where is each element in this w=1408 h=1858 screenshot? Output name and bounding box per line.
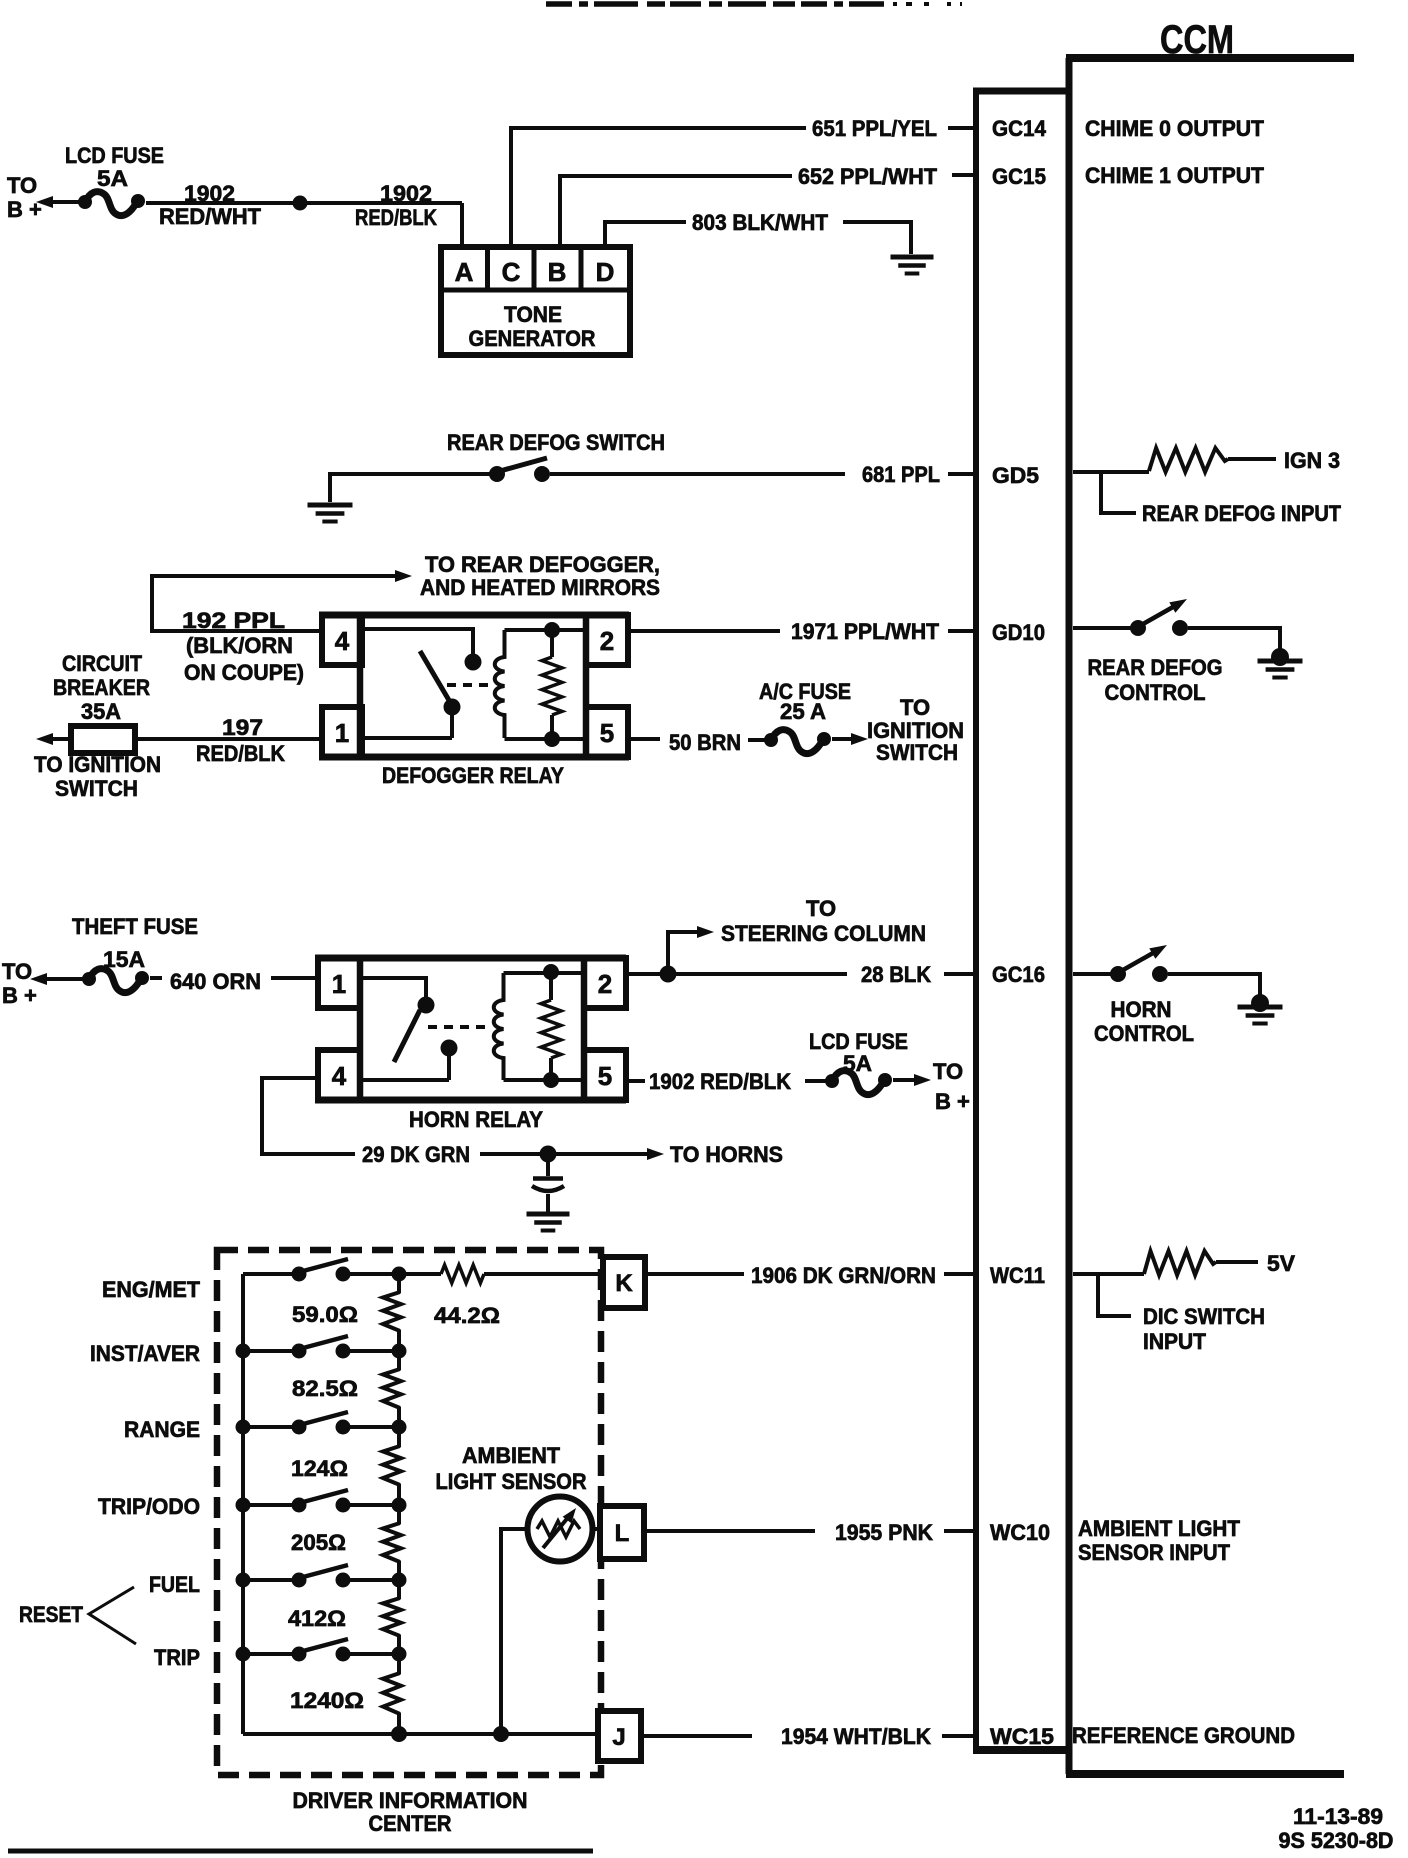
wire pivot to pin1 bbox=[450, 707, 454, 738]
svg-text:1: 1 bbox=[335, 718, 349, 748]
wire to 44.2ohm resistor bbox=[399, 1272, 441, 1276]
wire resistor top stub bbox=[550, 630, 554, 657]
svg-text:RED/BLK: RED/BLK bbox=[196, 741, 285, 766]
arrow to steering column bbox=[697, 926, 714, 938]
svg-text:RESET: RESET bbox=[19, 1602, 83, 1627]
svg-text:1902: 1902 bbox=[380, 181, 432, 206]
svg-text:THEFT FUSE: THEFT FUSE bbox=[72, 914, 198, 939]
dashed actuation link bbox=[428, 1025, 488, 1029]
arrow to B+ bbox=[30, 973, 47, 985]
svg-text:TO: TO bbox=[933, 1059, 963, 1084]
horn relay K2 outline bbox=[360, 958, 584, 1100]
svg-text:ON COUPE): ON COUPE) bbox=[184, 660, 304, 685]
svg-text:A: A bbox=[455, 257, 474, 287]
svg-text:2: 2 bbox=[600, 626, 614, 656]
svg-text:IGN 3: IGN 3 bbox=[1284, 448, 1340, 473]
fuse LCD 5A bbox=[825, 1074, 839, 1088]
wire resistor to IGN 3 bbox=[1228, 457, 1276, 461]
svg-text:FUEL: FUEL bbox=[149, 1572, 200, 1597]
svg-text:AMBIENT LIGHT: AMBIENT LIGHT bbox=[1078, 1516, 1241, 1541]
wire pin1 horizontal bbox=[362, 736, 452, 740]
switch ENG/MET bbox=[243, 1272, 292, 1276]
wire 1906 DK GRN/ORN bbox=[645, 1272, 744, 1276]
wire capacitor to ground bbox=[546, 1194, 550, 1212]
svg-text:LCD FUSE: LCD FUSE bbox=[65, 143, 164, 168]
switch RANGE bbox=[236, 1420, 251, 1435]
wire 681 PPL bbox=[550, 472, 845, 476]
junction node (1902) bbox=[293, 196, 308, 211]
photocell arrow shaft bbox=[543, 1515, 570, 1548]
svg-text:AMBIENT: AMBIENT bbox=[462, 1443, 561, 1468]
connector strip left edge bbox=[973, 88, 979, 1752]
wire pin1 to fixed contact bbox=[360, 978, 426, 998]
wire 1954 WHT/BLK bbox=[641, 1734, 752, 1738]
resistor 205Ω bbox=[383, 1523, 401, 1562]
svg-text:STEERING COLUMN: STEERING COLUMN bbox=[721, 921, 926, 946]
wire pin4 29 DK GRN bbox=[262, 1078, 355, 1154]
wire GD10 to switch bbox=[1073, 626, 1131, 630]
svg-text:TO HORNS: TO HORNS bbox=[670, 1142, 783, 1167]
svg-text:205Ω: 205Ω bbox=[291, 1530, 346, 1555]
wire pin4 to fixed contact bbox=[362, 629, 473, 655]
svg-text:K: K bbox=[615, 1270, 633, 1297]
ambient light sensor (photocell) bbox=[528, 1497, 593, 1562]
pin stub GD5 bbox=[948, 472, 973, 476]
svg-text:SWITCH: SWITCH bbox=[876, 740, 958, 765]
svg-text:1955 PNK: 1955 PNK bbox=[835, 1520, 933, 1545]
svg-text:25 A: 25 A bbox=[780, 699, 826, 724]
fuse THEFT 15A bbox=[82, 972, 96, 986]
pin divider A|C bbox=[485, 247, 490, 290]
svg-text:L: L bbox=[615, 1520, 630, 1547]
wire branch REAR DEFOG INPUT bbox=[1101, 472, 1136, 513]
fuse A/C 25A bbox=[764, 733, 778, 747]
junction node coil/resistor top bbox=[543, 964, 559, 980]
svg-text:WC11: WC11 bbox=[990, 1263, 1045, 1288]
DIC bottom bus wire bbox=[243, 1732, 600, 1736]
svg-text:DIC SWITCH: DIC SWITCH bbox=[1143, 1304, 1265, 1329]
svg-text:1902 RED/BLK: 1902 RED/BLK bbox=[649, 1069, 791, 1094]
switch INST/AVER bbox=[236, 1344, 251, 1359]
wire 28 BLK bbox=[625, 972, 847, 976]
connector strip bottom edge bbox=[973, 1746, 1066, 1754]
svg-text:TO IGNITION: TO IGNITION bbox=[34, 752, 161, 777]
wire sensor to pin L bbox=[592, 1527, 600, 1531]
svg-text:LIGHT SENSOR: LIGHT SENSOR bbox=[436, 1469, 587, 1494]
svg-text:TO: TO bbox=[7, 173, 37, 198]
svg-text:4: 4 bbox=[335, 626, 350, 656]
svg-text:GD5: GD5 bbox=[992, 463, 1039, 488]
svg-text:ENG/MET: ENG/MET bbox=[102, 1277, 201, 1302]
svg-text:CIRCUIT: CIRCUIT bbox=[62, 651, 142, 676]
svg-text:TO REAR DEFOGGER,: TO REAR DEFOGGER, bbox=[425, 552, 660, 577]
defogger relay pin 2 box bbox=[586, 615, 628, 665]
svg-text:TO: TO bbox=[900, 695, 930, 720]
wire 1955 PNK bbox=[644, 1529, 815, 1533]
switch actuation arrow bbox=[1169, 599, 1187, 613]
arrow to B+ bbox=[914, 1074, 931, 1086]
svg-text:RED/WHT: RED/WHT bbox=[159, 204, 262, 229]
relay armature blade bbox=[420, 651, 450, 702]
svg-text:RED/BLK: RED/BLK bbox=[355, 205, 437, 230]
svg-text:BREAKER: BREAKER bbox=[53, 675, 150, 700]
svg-text:82.5Ω: 82.5Ω bbox=[292, 1376, 358, 1401]
svg-text:TONE: TONE bbox=[504, 302, 562, 327]
pin stub GC16 bbox=[944, 972, 973, 976]
wire WC11 to resistor bbox=[1073, 1272, 1144, 1276]
switch REAR DEFOG SWITCH bbox=[489, 466, 505, 482]
svg-text:1906 DK GRN/ORN: 1906 DK GRN/ORN bbox=[751, 1263, 936, 1288]
wire branch to steering column bbox=[668, 932, 698, 974]
switch TRIP/ODO bbox=[236, 1498, 251, 1513]
svg-text:CONTROL: CONTROL bbox=[1105, 680, 1206, 705]
svg-text:28 BLK: 28 BLK bbox=[861, 962, 931, 987]
wire to capacitor bbox=[546, 1154, 550, 1176]
resistor 82.5Ω bbox=[383, 1369, 401, 1408]
circuit breaker 35A bbox=[71, 726, 135, 753]
wire 803 BLK/WHT from pin D bbox=[605, 222, 686, 247]
ground (tone generator) bbox=[891, 255, 934, 260]
CCM box right edge (vertical) bbox=[1066, 58, 1073, 1774]
resistor 44.2Ω bbox=[441, 1265, 484, 1283]
svg-text:651 PPL/YEL: 651 PPL/YEL bbox=[812, 116, 937, 141]
svg-text:35A: 35A bbox=[81, 699, 121, 724]
svg-text:WC10: WC10 bbox=[990, 1520, 1050, 1545]
wire resistor bottom stub bbox=[550, 715, 554, 739]
pin stub WC11 bbox=[944, 1272, 973, 1276]
driver information center dashed enclosure bbox=[217, 1250, 601, 1775]
pin divider B|D bbox=[579, 247, 584, 290]
resistor (5V pull-up) bbox=[1144, 1251, 1216, 1275]
CCM box top edge bbox=[1066, 54, 1354, 62]
arrow to ignition switch bbox=[36, 733, 53, 745]
pin stub WC15 bbox=[942, 1734, 973, 1738]
svg-text:HORN: HORN bbox=[1111, 997, 1172, 1022]
junction node coil/resistor top bbox=[544, 622, 560, 638]
svg-text:CHIME 0 OUTPUT: CHIME 0 OUTPUT bbox=[1085, 116, 1265, 141]
resistor 1240Ω bbox=[383, 1673, 401, 1714]
svg-text:TRIP/ODO: TRIP/ODO bbox=[98, 1494, 200, 1519]
tone generator pin-row divider bbox=[441, 288, 630, 293]
arrow to rear defogger bbox=[395, 570, 412, 582]
resistor 124Ω bbox=[383, 1446, 401, 1485]
svg-text:652 PPL/WHT: 652 PPL/WHT bbox=[798, 164, 938, 189]
svg-text:11-13-89: 11-13-89 bbox=[1293, 1804, 1383, 1829]
svg-text:REAR DEFOG INPUT: REAR DEFOG INPUT bbox=[1142, 501, 1342, 526]
DIC right bus wire segments bbox=[397, 1274, 401, 1293]
wire GD5 to resistor bbox=[1073, 470, 1149, 474]
switch FUEL bbox=[236, 1573, 251, 1588]
svg-text:CENTER: CENTER bbox=[369, 1811, 452, 1836]
defogger relay K1 outline bbox=[360, 615, 586, 757]
junction node coil/resistor bottom bbox=[543, 1072, 559, 1088]
pin divider C|B bbox=[532, 247, 537, 290]
svg-text:REAR DEFOG: REAR DEFOG bbox=[1088, 655, 1223, 680]
wire resistor to 5V bbox=[1216, 1260, 1258, 1264]
wire resistor to pin K bbox=[484, 1272, 603, 1276]
svg-text:1902: 1902 bbox=[184, 181, 235, 206]
armature pivot node bbox=[444, 699, 461, 716]
wire resistor top stub bbox=[549, 973, 553, 1000]
wire 651 PPL/YEL from pin C bbox=[511, 128, 806, 247]
svg-text:(BLK/ORN: (BLK/ORN bbox=[186, 633, 293, 658]
wire resistor bottom stub bbox=[549, 1058, 553, 1080]
svg-text:803 BLK/WHT: 803 BLK/WHT bbox=[692, 210, 829, 235]
relay shunt resistor bbox=[542, 657, 562, 715]
svg-text:TO: TO bbox=[806, 896, 836, 921]
dashed actuation link bbox=[447, 683, 492, 687]
relay shunt resistor bbox=[541, 1000, 561, 1058]
defogger relay pin 1 box bbox=[322, 707, 362, 757]
defogger relay bottom edge bbox=[319, 754, 629, 761]
svg-text:B +: B + bbox=[7, 197, 42, 222]
connector strip top edge bbox=[973, 88, 1066, 95]
junction node bottom bus / right bus bbox=[391, 1726, 407, 1742]
DIC pin K box bbox=[603, 1257, 645, 1308]
relay coil (defogger) bbox=[495, 630, 505, 738]
wire pivot down bbox=[447, 1048, 451, 1080]
svg-text:D: D bbox=[596, 257, 615, 287]
svg-text:59.0Ω: 59.0Ω bbox=[292, 1302, 358, 1327]
svg-text:50 BRN: 50 BRN bbox=[669, 730, 741, 755]
capacitor C1 (horn suppression) bbox=[533, 1176, 563, 1181]
svg-text:192 PPL: 192 PPL bbox=[182, 608, 285, 633]
svg-text:B +: B + bbox=[935, 1089, 970, 1114]
page border bottom line bbox=[8, 1849, 593, 1854]
wire switch to ground bbox=[1188, 628, 1280, 652]
junction node coil/resistor bottom bbox=[544, 731, 560, 747]
svg-text:GD10: GD10 bbox=[992, 620, 1045, 645]
svg-text:1954 WHT/BLK: 1954 WHT/BLK bbox=[781, 1724, 931, 1749]
svg-text:44.2Ω: 44.2Ω bbox=[434, 1303, 500, 1328]
svg-text:C: C bbox=[502, 257, 521, 287]
svg-text:INPUT: INPUT bbox=[1143, 1329, 1207, 1354]
svg-text:681 PPL: 681 PPL bbox=[862, 462, 940, 487]
svg-text:DRIVER INFORMATION: DRIVER INFORMATION bbox=[293, 1788, 528, 1813]
pin stub GC14 bbox=[948, 126, 973, 130]
photocell arrowhead bbox=[563, 1508, 576, 1523]
relay armature blade bbox=[394, 1010, 420, 1062]
svg-text:HORN RELAY: HORN RELAY bbox=[409, 1107, 543, 1132]
svg-text:SENSOR INPUT: SENSOR INPUT bbox=[1078, 1540, 1231, 1565]
pin stub GD10 bbox=[948, 629, 973, 633]
svg-text:GENERATOR: GENERATOR bbox=[469, 326, 596, 351]
ground (rear defog control) bbox=[1271, 648, 1289, 666]
junction node (horn capacitor) bbox=[540, 1146, 557, 1163]
svg-text:AND HEATED MIRRORS: AND HEATED MIRRORS bbox=[420, 575, 660, 600]
wire coil top to pin2 bbox=[505, 628, 589, 632]
svg-text:5A: 5A bbox=[97, 166, 128, 191]
svg-text:B +: B + bbox=[2, 983, 37, 1008]
svg-text:WC15: WC15 bbox=[990, 1724, 1054, 1749]
svg-text:DEFOGGER RELAY: DEFOGGER RELAY bbox=[382, 763, 564, 788]
wire 197 RED/BLK bbox=[135, 737, 322, 741]
ground (rear defog switch) bbox=[308, 503, 353, 508]
tone generator U1 bbox=[441, 247, 630, 355]
svg-text:124Ω: 124Ω bbox=[291, 1456, 348, 1481]
svg-text:1: 1 bbox=[332, 969, 346, 999]
switch REAR DEFOG CONTROL bbox=[1130, 620, 1146, 636]
svg-text:B: B bbox=[548, 257, 567, 287]
resistor 59.0Ω bbox=[383, 1292, 401, 1331]
RESET selector bracket bbox=[89, 1587, 136, 1644]
wire 1902 RED/WHT bbox=[146, 201, 462, 205]
svg-text:5: 5 bbox=[600, 718, 614, 748]
svg-text:GC15: GC15 bbox=[992, 164, 1046, 189]
switch HORN CONTROL bbox=[1110, 966, 1126, 982]
svg-text:9S 5230-8D: 9S 5230-8D bbox=[1279, 1828, 1394, 1853]
wire 1971 PPL/WHT bbox=[628, 629, 780, 633]
DIC left bus wire bbox=[241, 1274, 245, 1734]
wire sensor to reference ground bus bbox=[501, 1529, 528, 1734]
wire coil bottom to pin5 bbox=[504, 1078, 584, 1082]
svg-text:REFERENCE GROUND: REFERENCE GROUND bbox=[1072, 1723, 1295, 1748]
defogger relay top edge bbox=[319, 612, 629, 619]
svg-text:5V: 5V bbox=[1267, 1251, 1295, 1276]
fixed contact node bbox=[418, 997, 435, 1014]
svg-text:4: 4 bbox=[332, 1061, 347, 1091]
svg-text:197: 197 bbox=[222, 715, 263, 740]
arrow to B+ bbox=[36, 196, 53, 208]
svg-text:5: 5 bbox=[598, 1061, 612, 1091]
fixed contact node bbox=[465, 654, 482, 671]
relay coil (horn) bbox=[494, 973, 504, 1080]
horn relay pin 4 box bbox=[318, 1050, 360, 1100]
horn relay pin 1 box bbox=[318, 958, 360, 1008]
fuse LCD FUSE 5A bbox=[78, 195, 92, 209]
svg-text:29 DK GRN: 29 DK GRN bbox=[362, 1142, 470, 1167]
armature pivot node bbox=[441, 1040, 458, 1057]
pin stub WC10 bbox=[944, 1529, 973, 1533]
wire to A/C fuse bbox=[748, 738, 771, 742]
svg-text:1240Ω: 1240Ω bbox=[290, 1688, 364, 1713]
svg-text:REAR DEFOG SWITCH: REAR DEFOG SWITCH bbox=[447, 430, 665, 455]
junction node bottom bus / sensor bbox=[493, 1726, 509, 1742]
wire to LCD fuse bbox=[805, 1079, 832, 1083]
svg-text:GC14: GC14 bbox=[992, 116, 1047, 141]
ground (horn capacitor) bbox=[527, 1212, 570, 1217]
horn relay top edge bbox=[315, 955, 626, 962]
svg-text:J: J bbox=[612, 1724, 625, 1751]
wire down to tone generator pin A bbox=[460, 203, 464, 247]
wire coil bottom to pin5 bbox=[505, 737, 589, 741]
wire 803 BLK/WHT to ground bbox=[843, 222, 911, 254]
svg-text:INST/AVER: INST/AVER bbox=[90, 1341, 200, 1366]
wire pin5 stub bbox=[625, 1079, 645, 1083]
svg-text:RANGE: RANGE bbox=[124, 1417, 200, 1442]
svg-text:GC16: GC16 bbox=[992, 962, 1045, 987]
wire ground to switch bbox=[330, 474, 490, 502]
defogger relay pin 4 box bbox=[322, 615, 362, 665]
wire pin5 50 BRN stub bbox=[628, 737, 660, 741]
switch TRIP bbox=[236, 1647, 251, 1662]
arrow to horns bbox=[647, 1148, 664, 1160]
resistor (IGN 3 pull-up) bbox=[1149, 448, 1228, 472]
svg-text:TRIP: TRIP bbox=[154, 1645, 200, 1670]
svg-text:CONTROL: CONTROL bbox=[1094, 1021, 1194, 1046]
arrow to ignition switch bbox=[851, 733, 868, 745]
DIC pin J box bbox=[598, 1711, 641, 1761]
wire branch DIC SWITCH INPUT bbox=[1098, 1274, 1131, 1316]
svg-text:640 ORN: 640 ORN bbox=[170, 969, 261, 994]
switch actuation arrow bbox=[1149, 945, 1167, 959]
wire pin4 to rear defogger feed bbox=[152, 576, 398, 631]
wire GC16 to switch bbox=[1073, 972, 1111, 976]
horn relay pin 5 box bbox=[584, 1050, 626, 1100]
svg-text:SWITCH: SWITCH bbox=[55, 776, 138, 801]
wire coil top to pin2 bbox=[504, 971, 584, 975]
ground (horn control) bbox=[1251, 994, 1269, 1012]
cropped text artifacts at top edge bbox=[546, 1, 884, 7]
svg-text:TO: TO bbox=[2, 959, 32, 984]
pin stub GC15 bbox=[952, 173, 973, 177]
svg-text:412Ω: 412Ω bbox=[288, 1606, 346, 1631]
svg-text:CHIME 1 OUTPUT: CHIME 1 OUTPUT bbox=[1085, 163, 1265, 188]
wire 652 PPL/WHT from pin B bbox=[560, 176, 792, 247]
junction node (steering column) bbox=[660, 966, 677, 983]
CCM box bottom edge bbox=[1066, 1770, 1344, 1778]
wire 29 DK GRN to horns bbox=[480, 1152, 648, 1156]
svg-text:1971 PPL/WHT: 1971 PPL/WHT bbox=[791, 619, 940, 644]
defogger relay pin 5 box bbox=[586, 707, 628, 757]
horn relay bottom edge bbox=[315, 1097, 626, 1104]
wire 640 ORN to pin1 bbox=[271, 976, 318, 980]
wire pin4 horizontal bbox=[360, 1078, 449, 1082]
DIC pin L box bbox=[600, 1506, 644, 1559]
horn relay pin 2 box bbox=[584, 958, 626, 1008]
wire switch to ground bbox=[1168, 974, 1260, 998]
resistor 412Ω bbox=[383, 1598, 401, 1636]
svg-text:2: 2 bbox=[598, 969, 612, 999]
